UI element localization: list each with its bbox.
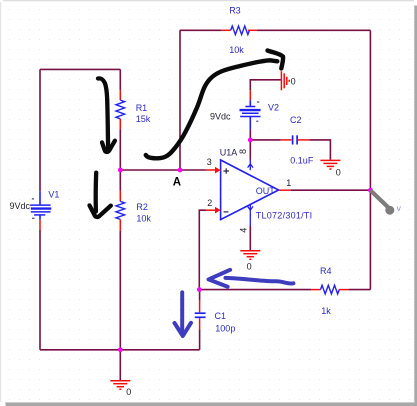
svg-text:R2: R2 xyxy=(136,202,148,212)
svg-text:10k: 10k xyxy=(229,45,244,55)
annotation blue down arrow xyxy=(175,292,192,336)
svg-text:R4: R4 xyxy=(320,266,332,276)
svg-text:U1A: U1A xyxy=(220,148,238,158)
wire node A row to op-amp pin 3 xyxy=(120,169,205,171)
wire R1 top stub column xyxy=(119,69,121,90)
resistor R3 xyxy=(221,26,257,35)
svg-text:0.1uF: 0.1uF xyxy=(290,156,314,166)
window border left xyxy=(0,2,2,402)
svg-text:9Vdc: 9Vdc xyxy=(210,111,231,121)
svg-text:V2: V2 xyxy=(268,103,279,113)
probe V xyxy=(372,192,395,215)
annotation black S curve arrow xyxy=(146,51,283,159)
wire top-left row V1 to R1 xyxy=(40,68,120,70)
svg-text:1: 1 xyxy=(286,178,291,188)
annotation black arrow 2 xyxy=(90,173,111,217)
wire C2 row right to ground xyxy=(310,140,331,160)
svg-text:0: 0 xyxy=(291,77,296,87)
wire C2 row left xyxy=(250,139,280,141)
svg-text:C2: C2 xyxy=(290,115,302,125)
wire top row right of R3 xyxy=(257,29,370,31)
svg-text:0: 0 xyxy=(126,387,131,397)
ground op-amp xyxy=(240,251,260,260)
wire R2 bottom column xyxy=(119,231,121,350)
svg-text:0: 0 xyxy=(336,168,341,178)
wire V1 lower column xyxy=(39,230,41,350)
wire pin 4 to ground xyxy=(249,226,251,250)
svg-text:OUT: OUT xyxy=(256,186,275,196)
ground bottom left xyxy=(110,381,130,390)
wire output row xyxy=(291,189,371,191)
resistor R4 xyxy=(311,285,349,294)
svg-text:2: 2 xyxy=(207,198,212,208)
wire top row left of R3 xyxy=(180,29,221,31)
pin 8 stub xyxy=(248,160,253,171)
wire V2 top xyxy=(250,80,281,90)
resistor R2 xyxy=(116,190,125,230)
pin 4 stub xyxy=(248,204,253,226)
wire ground stub bottom xyxy=(119,350,121,380)
junction V2 bottom xyxy=(248,138,253,143)
capacitor C1 xyxy=(195,301,206,330)
annotation blue left arrow xyxy=(209,270,294,287)
pin 1 output stub xyxy=(279,189,291,191)
svg-text:8: 8 xyxy=(238,149,248,154)
wire feedback column xyxy=(179,30,181,170)
svg-text:4: 4 xyxy=(238,228,248,233)
wire bottom row xyxy=(40,349,200,351)
wire right column xyxy=(369,30,371,289)
resistor R1 xyxy=(116,90,125,129)
window border top xyxy=(3,0,414,2)
svg-text:100p: 100p xyxy=(215,323,235,333)
ground V2 rotated xyxy=(281,71,289,90)
svg-text:V1: V1 xyxy=(48,190,59,200)
svg-text:C1: C1 xyxy=(215,311,227,321)
junction C1 top xyxy=(197,287,202,292)
source V2 xyxy=(240,90,261,129)
junction node A left xyxy=(118,168,123,173)
pin 2 stub arrow xyxy=(206,209,216,211)
pin 3 stub arrow xyxy=(206,169,216,171)
svg-text:R3: R3 xyxy=(229,5,241,15)
svg-text:TL072/301/TI: TL072/301/TI xyxy=(256,211,313,221)
svg-text:15k: 15k xyxy=(136,114,151,124)
wire V2 bottom to pin 8 xyxy=(249,130,251,160)
source V1 xyxy=(30,191,51,230)
drop shadow bottom xyxy=(5,401,414,404)
capacitor C2 xyxy=(281,135,310,144)
annotation black arrow 1 xyxy=(98,78,115,152)
svg-text:R1: R1 xyxy=(136,103,148,113)
ground C2 xyxy=(320,160,340,169)
wire pin2 column xyxy=(199,210,205,289)
junction bottom row xyxy=(118,347,123,352)
wire R4 row right xyxy=(349,289,370,291)
svg-text:3: 3 xyxy=(207,157,212,167)
svg-text:A: A xyxy=(173,177,181,189)
wire R1 bottom to node A xyxy=(119,130,121,170)
svg-text:0: 0 xyxy=(247,261,252,271)
junction output xyxy=(368,188,373,193)
wire R4 row left xyxy=(199,289,311,291)
wire C1 upper xyxy=(199,290,201,301)
wire C1 lower xyxy=(199,329,201,350)
svg-text:v: v xyxy=(397,203,402,213)
wire V1 upper column xyxy=(39,69,41,191)
junction node A right xyxy=(178,168,183,173)
svg-text:10k: 10k xyxy=(136,214,151,224)
svg-text:9Vdc: 9Vdc xyxy=(10,201,31,211)
svg-text:1k: 1k xyxy=(321,306,331,316)
wire node A to R2 xyxy=(119,170,121,190)
op-amp U1A xyxy=(221,160,279,220)
drop shadow right xyxy=(413,5,416,403)
